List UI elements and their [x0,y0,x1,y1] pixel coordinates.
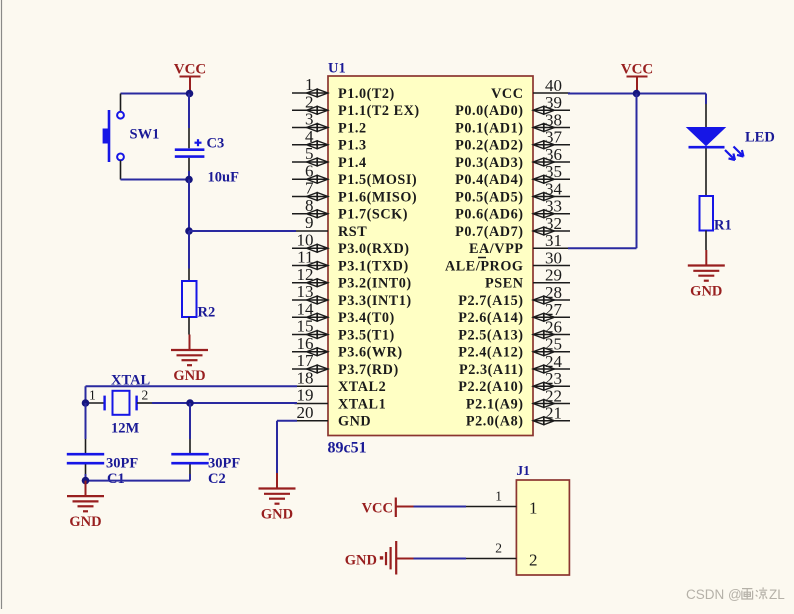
U1 pin 29 PSEN [485,266,570,292]
svg-text:2: 2 [529,551,538,570]
wire: C1 bottom to C2 bottom [86,480,191,482]
svg-text:P2.3(A11): P2.3(A11) [459,362,523,378]
svg-text:C1: C1 [107,471,125,487]
U1 pin 2 P1.1(T2 EX) [292,92,420,119]
svg-text:27: 27 [545,300,563,319]
U1 pin 4 P1.3 [292,127,367,154]
IC U1 89c51 body [328,61,534,457]
wire: U1 pin20 GND net [277,421,297,473]
svg-text:GND: GND [338,414,371,430]
svg-text:P2.0(A8): P2.0(A8) [466,414,524,430]
svg-text:18: 18 [297,368,314,387]
svg-text:89c51: 89c51 [328,440,367,457]
LED D1 [687,104,775,196]
svg-text:VCC: VCC [174,62,207,78]
svg-text:P2.4(A12): P2.4(A12) [458,345,523,361]
svg-text:XTAL2: XTAL2 [338,379,386,395]
svg-text:VCC: VCC [621,62,654,78]
svg-text:32: 32 [545,214,562,233]
svg-text:P1.4: P1.4 [338,155,367,171]
U1 pin 1 P1.0(T2) [292,75,395,102]
power symbol VCC right [621,62,654,94]
wire: VCC port to J1 pin1 [414,506,467,508]
svg-text:40: 40 [545,76,562,95]
svg-text:P1.7(SCK): P1.7(SCK) [338,207,408,223]
svg-text:P3.5(T1): P3.5(T1) [338,327,395,343]
svg-text:6: 6 [305,161,314,180]
svg-text:5: 5 [305,144,314,163]
U1 pin 6 P1.5(MOSI) [292,161,417,188]
resistor R1 [700,196,732,250]
U1 pin 11 P3.1(TXD) [292,248,409,275]
svg-text:12: 12 [297,265,314,284]
U1 pin 28 P2.7(A15) [458,283,570,309]
svg-text:25: 25 [545,335,562,354]
svg-text:2: 2 [142,388,149,403]
svg-text:P0.1(AD1): P0.1(AD1) [455,120,523,136]
U1 pin 38 P0.1(AD1) [455,110,570,136]
svg-text:R1: R1 [714,218,732,234]
svg-text:30: 30 [545,248,562,267]
svg-text:P2.6(A14): P2.6(A14) [458,310,523,326]
svg-text:P1.2: P1.2 [338,120,367,136]
power port GND at J1 [345,541,414,575]
svg-text:EA/VPP: EA/VPP [469,241,524,257]
U1 pin 18 XTAL2 [295,368,387,395]
U1 pin 37 P0.2(AD2) [455,128,570,154]
junction node C1 bottom [82,477,90,485]
svg-text:2: 2 [305,92,314,111]
svg-text:P3.4(T0): P3.4(T0) [338,310,395,326]
svg-text:19: 19 [297,386,314,405]
wire: U1 XTAL2 pin18 net [86,386,298,403]
watermark CSDN [686,587,785,602]
U1 pin 12 P3.2(INT0) [292,265,412,292]
svg-text:P3.2(INT0): P3.2(INT0) [338,276,412,292]
U1 pin 14 P3.4(T0) [292,299,395,326]
svg-text:GND: GND [345,552,377,568]
svg-text:VCC: VCC [362,501,393,517]
svg-text:28: 28 [545,283,562,302]
U1 pin 7 P1.6(MISO) [292,179,417,206]
svg-text:C2: C2 [208,471,226,487]
svg-text:29: 29 [545,266,562,285]
U1 pin 9 RST [295,213,368,240]
svg-text:14: 14 [297,299,315,318]
svg-text:1: 1 [89,388,96,403]
J1 pin 2 [466,541,538,570]
U1 pin 19 XTAL1 [295,386,387,413]
wire: U1 pin40 VCC to LED top [568,94,706,105]
svg-text:38: 38 [545,110,562,129]
svg-text:U1: U1 [328,61,346,77]
svg-text:P1.1(T2 EX): P1.1(T2 EX) [338,103,420,119]
U1 pin 27 P2.6(A14) [458,300,570,326]
svg-text:P0.6(AD6): P0.6(AD6) [455,207,523,223]
ground symbol below C1 [67,481,104,530]
svg-text:XTAL: XTAL [111,373,151,389]
U1 pin 21 P2.0(A8) [466,404,570,430]
U1 pin 8 P1.7(SCK) [292,196,408,223]
svg-text:XTAL1: XTAL1 [338,396,386,412]
svg-text:P2.5(A13): P2.5(A13) [458,327,523,343]
wire: switch bottom to C3 bottom junction [121,179,190,181]
svg-text:GND: GND [69,514,101,530]
svg-text:ZL: ZL [769,587,785,602]
U1 pin 3 P1.2 [292,110,367,137]
svg-text:34: 34 [545,179,563,198]
svg-text:P0.3(AD3): P0.3(AD3) [455,155,523,171]
svg-text:P0.2(AD2): P0.2(AD2) [455,138,523,154]
junction node C3/SW1 bottom [185,176,193,184]
svg-text:P3.6(WR): P3.6(WR) [338,345,403,361]
svg-text:4: 4 [305,127,314,146]
svg-text:RST: RST [338,224,367,240]
svg-text:P0.7(AD7): P0.7(AD7) [455,224,523,240]
svg-text:P0.4(AD4): P0.4(AD4) [455,172,523,188]
wire: U1 XTAL1 pin19 net [190,402,297,404]
wire: VCC rail to switch top [121,93,190,95]
svg-text:SW1: SW1 [130,127,160,143]
svg-text:3: 3 [305,110,314,129]
capacitor C3 10uF (polarized) [175,94,239,186]
U1 pin 30 ALE/PROG [445,248,570,274]
svg-text:33: 33 [545,197,562,216]
U1 pin 13 P3.3(INT1) [292,282,412,309]
svg-text:9: 9 [305,213,314,232]
svg-text:P3.1(TXD): P3.1(TXD) [338,258,409,274]
U1 pin 20 GND [295,403,372,430]
U1 pin 26 P2.5(A13) [458,317,570,343]
U1 pin 15 P3.5(T1) [292,317,395,344]
svg-text:GND: GND [173,368,205,384]
svg-text:20: 20 [297,403,314,422]
U1 pin 33 P0.6(AD6) [455,197,570,223]
svg-text:P1.3: P1.3 [338,138,367,154]
svg-text:22: 22 [545,386,562,405]
junction node VCC right [633,90,641,98]
svg-text:31: 31 [545,231,562,250]
capacitor C2 30PF [171,403,240,487]
wire: down to RST node [188,180,190,232]
svg-text:30PF: 30PF [208,456,240,472]
svg-text:ALE/PROG: ALE/PROG [445,258,524,274]
svg-text:GND: GND [690,284,722,300]
ground symbol below R2 [171,335,208,385]
capacitor C1 30PF [67,403,139,487]
U1 pin 16 P3.6(WR) [292,334,403,361]
svg-text:P2.7(A15): P2.7(A15) [458,293,523,309]
wire: EA/VPP to VCC [568,94,637,249]
svg-text:36: 36 [545,145,562,164]
connector J1 body [516,463,569,575]
wire: GND port to J1 pin2 [414,558,467,560]
svg-text:21: 21 [545,404,562,423]
power port VCC at J1 [362,498,414,518]
svg-text:CSDN @: CSDN @ [686,587,742,602]
svg-text:GND: GND [261,507,293,523]
junction node crystal pin2 [186,399,194,407]
U1 pin 31 EA/VPP [469,231,570,257]
svg-text:26: 26 [545,317,562,336]
junction node RST [185,227,193,235]
U1 pin 10 P3.0(RXD) [292,230,410,257]
svg-text:1: 1 [529,499,538,518]
svg-text:11: 11 [297,248,313,267]
svg-text:35: 35 [545,162,562,181]
svg-text:P0.0(AD0): P0.0(AD0) [455,103,523,119]
svg-text:8: 8 [305,196,314,215]
svg-text:VCC: VCC [491,86,523,102]
svg-text:P2.2(A10): P2.2(A10) [458,379,523,395]
svg-text:15: 15 [297,317,314,336]
U1 pin 35 P0.4(AD4) [455,162,570,188]
svg-text:P3.0(RXD): P3.0(RXD) [338,241,410,257]
ground symbol below R1 [688,250,725,300]
svg-text:P1.5(MOSI): P1.5(MOSI) [338,172,417,188]
svg-text:12M: 12M [111,421,140,437]
svg-text:13: 13 [297,282,314,301]
svg-text:23: 23 [545,369,562,388]
svg-text:P1.6(MISO): P1.6(MISO) [338,189,417,205]
svg-text:P3.7(RD): P3.7(RD) [338,362,399,378]
U1 pin 25 P2.4(A12) [458,335,570,361]
U1 pin 34 P0.5(AD5) [455,179,570,205]
wire: RST node to U1 pin 9 [189,230,296,232]
svg-text:PSEN: PSEN [485,276,524,292]
svg-text:39: 39 [545,93,562,112]
svg-text:J1: J1 [516,463,530,478]
U1 pin 24 P2.3(A11) [459,352,570,378]
U1 pin 36 P0.3(AD3) [455,145,570,171]
U1 pin 32 P0.7(AD7) [455,214,570,240]
junction node VCC/C3/SW1 [186,90,194,98]
svg-text:7: 7 [305,179,314,198]
svg-text:10uF: 10uF [208,170,240,186]
svg-text:1: 1 [495,489,502,504]
svg-text:37: 37 [545,128,563,147]
svg-text:10: 10 [297,230,314,249]
svg-text:P2.1(A9): P2.1(A9) [466,396,524,412]
svg-text:30PF: 30PF [106,456,138,472]
svg-text:P1.0(T2): P1.0(T2) [338,86,395,102]
U1 pin 17 P3.7(RD) [292,351,399,378]
svg-text:C3: C3 [207,136,225,152]
U1 pin 23 P2.2(A10) [458,369,570,395]
svg-text:1: 1 [305,75,314,94]
svg-text:17: 17 [297,351,315,370]
U1 pin 40 VCC [491,76,570,102]
U1 pin 39 P0.0(AD0) [455,93,570,119]
J1 pin 1 [466,489,538,518]
resistor R2 [182,231,215,335]
junction node crystal pin1 [82,399,90,407]
svg-text:LED: LED [745,130,775,146]
svg-text:2: 2 [495,541,502,556]
svg-text:P3.3(INT1): P3.3(INT1) [338,293,412,309]
svg-text:16: 16 [297,334,314,353]
svg-text:24: 24 [545,352,563,371]
switch SW1 [103,94,160,180]
U1 pin 22 P2.1(A9) [466,386,570,412]
power symbol VCC left [174,62,207,94]
crystal XTAL 12M [86,373,191,437]
svg-text:P0.5(AD5): P0.5(AD5) [455,189,523,205]
U1 pin 5 P1.4 [292,144,367,171]
svg-text:R2: R2 [198,305,216,321]
ground symbol below U1 pin20 [259,473,296,523]
